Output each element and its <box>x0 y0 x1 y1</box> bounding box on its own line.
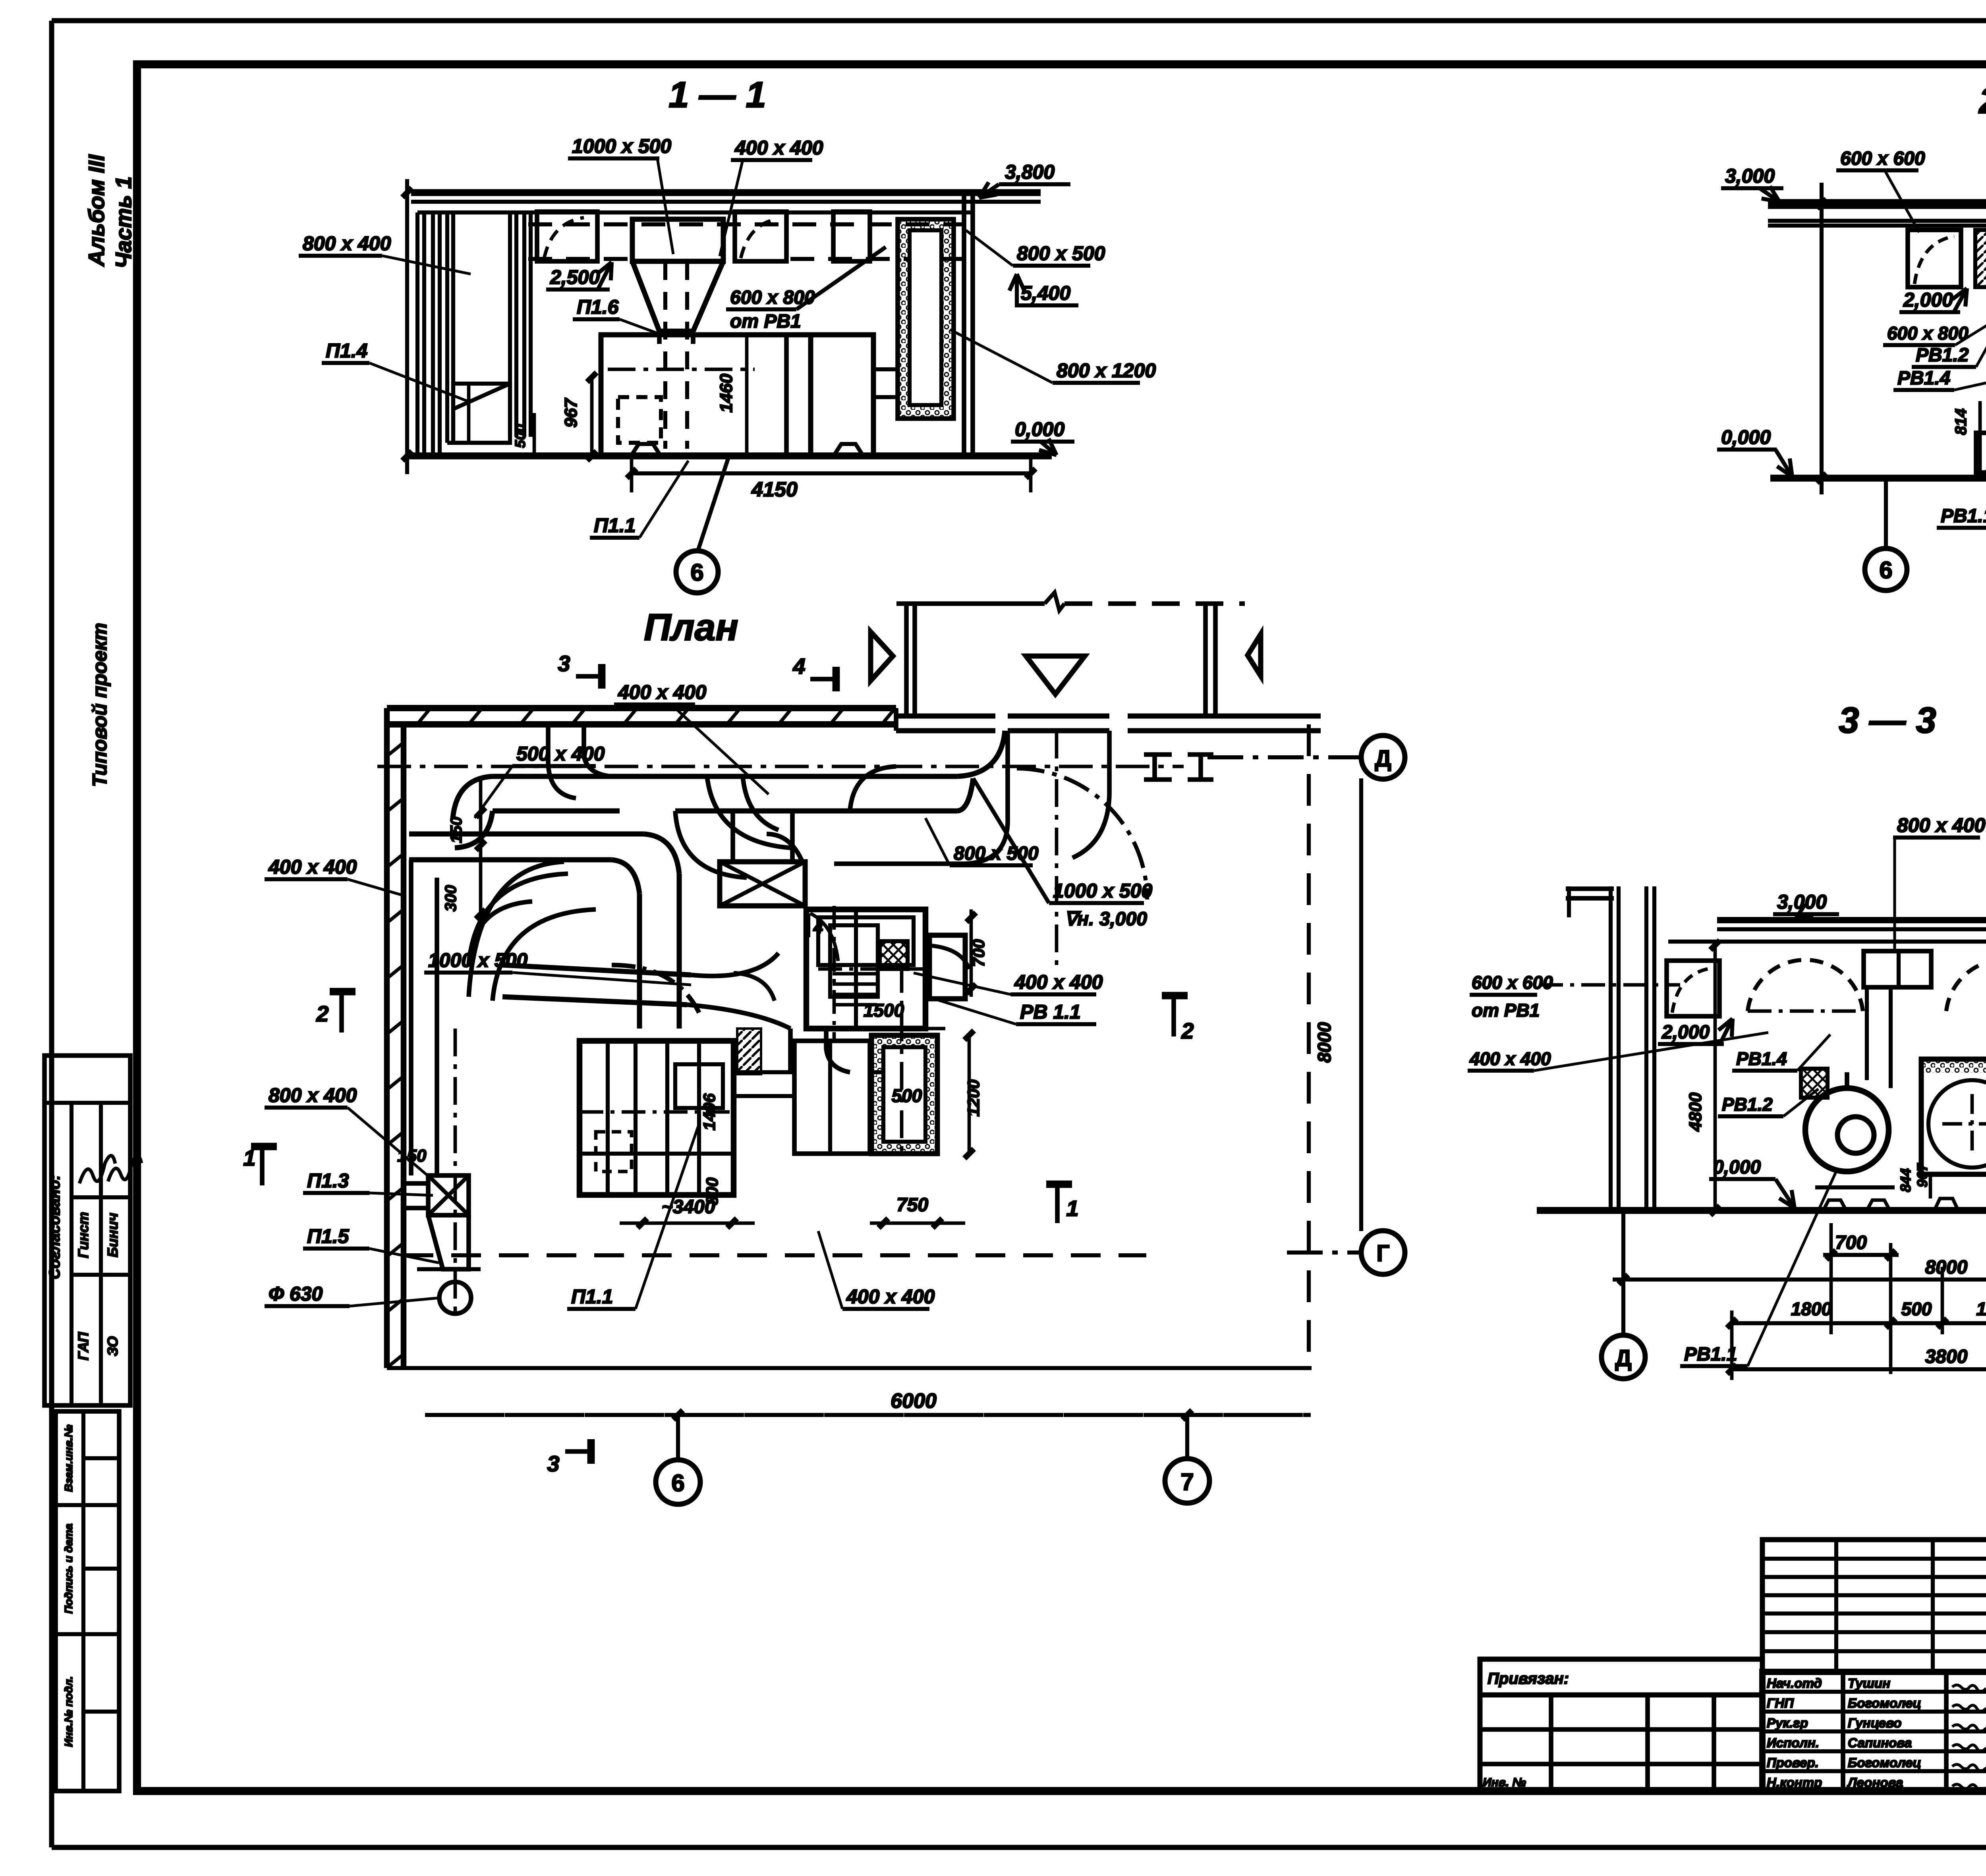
svg-text:0,000: 0,000 <box>1713 1157 1761 1178</box>
svg-text:ГНП: ГНП <box>1767 1696 1794 1710</box>
svg-text:2,000: 2,000 <box>1661 1022 1710 1043</box>
svg-text:Часть 1: Часть 1 <box>111 176 136 268</box>
svg-text:4: 4 <box>813 918 823 937</box>
svg-text:Подпись и дата: Подпись и дата <box>62 1524 75 1614</box>
svg-text:П1.5: П1.5 <box>307 1225 350 1247</box>
svg-text:План: План <box>644 606 738 648</box>
svg-text:Типовой проект: Типовой проект <box>89 623 111 787</box>
svg-text:700: 700 <box>1835 1232 1867 1253</box>
svg-text:Взам.инв.№: Взам.инв.№ <box>62 1424 75 1492</box>
svg-text:6: 6 <box>671 1470 684 1496</box>
svg-text:РВ1.1: РВ1.1 <box>1941 506 1986 527</box>
svg-text:3,800: 3,800 <box>1005 161 1055 183</box>
svg-text:Провер.: Провер. <box>1767 1755 1819 1770</box>
svg-text:400 x 400: 400 x 400 <box>1014 971 1103 993</box>
svg-text:500: 500 <box>1901 1299 1932 1319</box>
svg-text:от РВ1: от РВ1 <box>1472 1000 1540 1021</box>
svg-text:РВ1.2: РВ1.2 <box>1916 345 1969 366</box>
svg-text:3: 3 <box>558 651 570 676</box>
svg-text:2: 2 <box>316 1001 328 1026</box>
svg-text:Г: Г <box>1377 1241 1390 1266</box>
svg-text:Н.контр: Н.контр <box>1767 1775 1822 1790</box>
svg-text:2,000: 2,000 <box>1903 289 1953 311</box>
svg-text:1406: 1406 <box>700 1093 719 1131</box>
svg-text:800: 800 <box>703 1177 721 1205</box>
svg-text:150: 150 <box>397 1146 427 1166</box>
svg-text:400 x 400: 400 x 400 <box>734 137 823 159</box>
svg-text:400 x 400: 400 x 400 <box>846 1285 935 1308</box>
svg-text:750: 750 <box>896 1195 928 1216</box>
svg-text:от РВ1: от РВ1 <box>730 311 801 332</box>
svg-text:Рук.гр: Рук.гр <box>1767 1716 1808 1730</box>
svg-text:1000 x 500: 1000 x 500 <box>428 949 527 971</box>
svg-text:800 x 500: 800 x 500 <box>1017 242 1105 264</box>
svg-text:П1.1: П1.1 <box>571 1285 613 1308</box>
svg-text:3 — 3: 3 — 3 <box>1839 700 1936 741</box>
svg-text:РВ1.1: РВ1.1 <box>1684 1344 1737 1365</box>
svg-text:400 x 400: 400 x 400 <box>1469 1048 1551 1069</box>
svg-text:3: 3 <box>547 1451 559 1476</box>
svg-text:Тушин: Тушин <box>1848 1676 1890 1691</box>
svg-text:Исполн.: Исполн. <box>1767 1735 1819 1750</box>
svg-text:1100: 1100 <box>1976 1299 1986 1319</box>
svg-text:967: 967 <box>1914 1163 1930 1187</box>
svg-text:Богомолец: Богомолец <box>1848 1755 1921 1770</box>
svg-text:1200: 1200 <box>964 1079 983 1116</box>
svg-text:400 x 400: 400 x 400 <box>268 856 357 878</box>
svg-text:4800: 4800 <box>1686 1092 1705 1132</box>
svg-text:1000 x 500: 1000 x 500 <box>1053 880 1152 902</box>
svg-text:500: 500 <box>512 424 528 448</box>
svg-text:Д: Д <box>1375 746 1391 772</box>
svg-text:1: 1 <box>1066 1196 1078 1221</box>
svg-text:Согласовано:: Согласовано: <box>46 1175 63 1279</box>
svg-text:800 x 1200: 800 x 1200 <box>1057 359 1156 382</box>
svg-text:ЗО: ЗО <box>104 1336 121 1356</box>
svg-text:400 x 400: 400 x 400 <box>618 681 707 703</box>
svg-text:РВ1.4: РВ1.4 <box>1736 1048 1787 1069</box>
svg-text:П1.4: П1.4 <box>326 340 367 362</box>
svg-text:500: 500 <box>892 1085 922 1106</box>
svg-text:0,000: 0,000 <box>1015 418 1064 440</box>
svg-text:600 x 600: 600 x 600 <box>1472 972 1553 993</box>
svg-text:800 x 400: 800 x 400 <box>303 232 391 255</box>
svg-text:6000: 6000 <box>891 1390 937 1413</box>
svg-text:Бинич: Бинич <box>104 1213 121 1257</box>
svg-text:Инв.№ подл.: Инв.№ подл. <box>62 1676 75 1747</box>
svg-text:800 x 400: 800 x 400 <box>269 1084 357 1106</box>
svg-text:814: 814 <box>1952 409 1970 435</box>
svg-text:Нач.отд: Нач.отд <box>1767 1676 1822 1691</box>
svg-text:Леонова: Леонова <box>1847 1775 1903 1790</box>
svg-text:844: 844 <box>1897 1168 1914 1192</box>
svg-text:600 x 600: 600 x 600 <box>1840 148 1925 169</box>
svg-text:Гинст: Гинст <box>75 1212 91 1258</box>
svg-text:П1.6: П1.6 <box>577 296 619 318</box>
svg-text:0,000: 0,000 <box>1721 426 1771 448</box>
svg-text:4150: 4150 <box>751 478 798 501</box>
svg-text:Привязан:: Привязан: <box>1488 1670 1569 1687</box>
svg-text:8000: 8000 <box>1925 1257 1968 1278</box>
svg-text:5,400: 5,400 <box>1021 282 1070 304</box>
svg-text:2: 2 <box>1181 1018 1194 1043</box>
svg-text:Инв. №: Инв. № <box>1483 1776 1526 1789</box>
svg-text:1 — 1: 1 — 1 <box>668 75 766 115</box>
svg-text:3,000: 3,000 <box>1725 165 1775 187</box>
svg-text:Гунцево: Гунцево <box>1848 1716 1901 1730</box>
svg-text:Альбом III: Альбом III <box>84 154 109 267</box>
svg-text:ГАП: ГАП <box>75 1332 91 1360</box>
svg-text:1800: 1800 <box>1791 1299 1832 1319</box>
svg-text:Богомолец: Богомолец <box>1848 1696 1921 1710</box>
svg-text:6: 6 <box>690 559 703 586</box>
svg-text:800 x 400: 800 x 400 <box>1897 814 1986 836</box>
svg-text:Ф 630: Ф 630 <box>269 1283 323 1305</box>
svg-text:300: 300 <box>442 885 460 912</box>
svg-text:РВ 1.1: РВ 1.1 <box>1020 1001 1081 1023</box>
svg-text:8000: 8000 <box>1314 1022 1335 1063</box>
svg-text:2,500: 2,500 <box>550 266 600 288</box>
svg-text:967: 967 <box>561 398 581 428</box>
svg-text:1460: 1460 <box>717 374 736 413</box>
svg-text:1000 x 500: 1000 x 500 <box>572 135 671 157</box>
svg-text:∇н. 3,000: ∇н. 3,000 <box>1064 909 1147 930</box>
svg-text:500 x 400: 500 x 400 <box>516 743 605 765</box>
svg-text:800 x 500: 800 x 500 <box>954 843 1039 864</box>
svg-text:Д: Д <box>1615 1345 1631 1371</box>
svg-text:П1.3: П1.3 <box>307 1170 349 1192</box>
svg-text:150: 150 <box>448 817 465 843</box>
svg-text:3800: 3800 <box>1925 1346 1968 1367</box>
svg-text:Сапинова: Сапинова <box>1848 1735 1912 1750</box>
svg-text:4: 4 <box>792 654 805 679</box>
svg-text:600 x 800: 600 x 800 <box>1887 323 1969 344</box>
svg-text:1500: 1500 <box>864 1000 904 1021</box>
svg-text:7: 7 <box>1180 1469 1194 1495</box>
svg-text:РВ1.4: РВ1.4 <box>1897 368 1950 389</box>
svg-text:РВ1.2: РВ1.2 <box>1722 1094 1773 1115</box>
svg-text:6: 6 <box>1879 557 1892 583</box>
svg-text:2 — 2: 2 — 2 <box>1978 81 1986 121</box>
svg-text:П1.1: П1.1 <box>594 514 636 537</box>
